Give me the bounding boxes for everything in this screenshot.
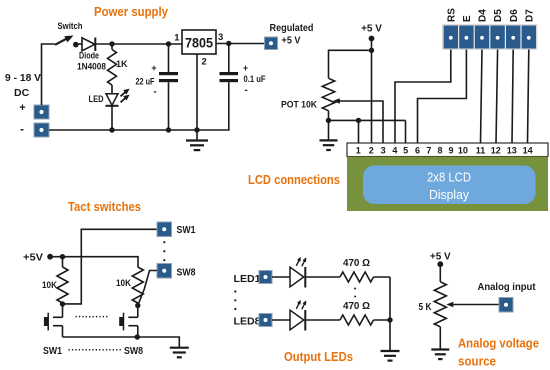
svg-text:Display: Display xyxy=(429,187,469,202)
svg-text:D5: D5 xyxy=(493,9,504,22)
label SW8 (bottom) xyxy=(124,345,143,357)
wire: D5 to pin 12 xyxy=(496,49,498,143)
wire: E to pin 6 xyxy=(418,49,467,143)
wire: LED8 conn to diode xyxy=(272,319,290,321)
svg-text:10K: 10K xyxy=(116,278,131,289)
dotted line between switches xyxy=(76,316,109,318)
label 9 - 18 V DC input xyxy=(5,72,41,136)
svg-text:+5 V: +5 V xyxy=(282,35,301,47)
pot wiper arrow to pin 3 xyxy=(333,98,383,143)
wire: R2 stem xyxy=(62,257,64,267)
svg-text:8: 8 xyxy=(437,146,442,156)
svg-text:2: 2 xyxy=(369,146,374,156)
potentiometer POT 10K xyxy=(322,78,334,110)
junction: 22uF bottom xyxy=(166,127,171,132)
connector J1 - (DC input negative) xyxy=(34,123,49,137)
ellipsis between 470s xyxy=(354,288,356,298)
svg-text:1: 1 xyxy=(174,33,180,44)
LED D4 (row 2) xyxy=(290,300,306,331)
svg-text:2: 2 xyxy=(202,57,207,68)
junction: 22uF tap xyxy=(166,41,171,46)
svg-text:RS: RS xyxy=(446,8,457,22)
wire: diode to node A xyxy=(95,43,112,45)
svg-text:Switch: Switch xyxy=(58,21,83,31)
svg-text:2x8 LCD: 2x8 LCD xyxy=(427,170,471,185)
connector SW8 xyxy=(157,264,172,279)
label 2x8 LCD Display xyxy=(427,170,471,203)
connector analog input xyxy=(499,298,513,313)
label +5 V (LCD) xyxy=(361,24,382,35)
label 10K (right) xyxy=(116,278,131,289)
svg-text:1N4008: 1N4008 xyxy=(77,62,106,72)
svg-text:1: 1 xyxy=(356,146,361,156)
wire: ground rail to pin1/pin5 xyxy=(329,120,406,139)
LCD board (green) xyxy=(347,157,548,212)
label 10K (left) xyxy=(42,280,57,291)
svg-text:7: 7 xyxy=(426,146,431,156)
svg-text:-: - xyxy=(20,122,24,136)
svg-text:+5 V: +5 V xyxy=(430,252,451,263)
svg-text:D7: D7 xyxy=(524,9,535,22)
label SW8 (connector) xyxy=(177,267,196,279)
svg-text:SW8: SW8 xyxy=(177,267,196,279)
wire: R4 to rail xyxy=(374,276,391,278)
svg-text:10: 10 xyxy=(458,146,468,156)
junction: LED bottom xyxy=(109,127,114,132)
resistor R5 470 xyxy=(340,315,374,325)
svg-text:14: 14 xyxy=(523,146,533,156)
wire: pot bottom to ground rail xyxy=(328,111,330,121)
ground: LCD pot xyxy=(320,140,338,150)
wire: LED8 to R5 xyxy=(305,319,340,321)
label SW1 (bottom) xyxy=(43,345,62,357)
label Switch xyxy=(58,21,83,31)
label 470 ohm (bottom) xyxy=(343,300,370,312)
connector LED1 xyxy=(259,271,272,284)
LED D3 (row 1) xyxy=(290,257,306,288)
wire: node A to 7805 pin 1 xyxy=(112,43,182,45)
junction: R2 bottom node xyxy=(60,301,65,306)
wire: switch to diode xyxy=(78,43,82,45)
svg-text:LED: LED xyxy=(89,94,104,104)
wire: D7 to pin 14 xyxy=(528,49,529,143)
wire: pot to ground (analog) xyxy=(439,327,441,349)
svg-text:+5 V: +5 V xyxy=(361,24,382,35)
svg-text:10K: 10K xyxy=(42,280,57,291)
svg-text:Output LEDs: Output LEDs xyxy=(284,349,353,364)
svg-text:Power supply: Power supply xyxy=(94,4,169,19)
label Analog input xyxy=(478,281,536,293)
wire: D6 to pin 13 xyxy=(512,49,513,143)
switch S1 lever xyxy=(55,36,74,45)
label LED1 xyxy=(234,273,261,285)
junction: 0.1uF tap xyxy=(226,41,231,46)
wire: +5V to pot xyxy=(439,264,441,282)
svg-text:22 uF: 22 uF xyxy=(136,77,155,87)
node A junction (diode/1K/7805) xyxy=(109,41,114,46)
label POT 10K xyxy=(281,100,317,110)
svg-text:0.1 uF: 0.1 uF xyxy=(244,74,266,84)
svg-text:D6: D6 xyxy=(509,9,520,22)
wire: LED1 to R4 xyxy=(305,276,340,278)
pot wiper arrow (analog) xyxy=(446,302,499,308)
wire: RS to pin 4 xyxy=(395,49,451,143)
junction: +5V/pot xyxy=(369,48,374,53)
junction: SW8 ground tap xyxy=(135,334,140,339)
wire: pin 1 stub xyxy=(358,120,360,143)
wire: R5 to rail xyxy=(374,319,391,321)
svg-text:6: 6 xyxy=(415,146,420,156)
svg-text:470 Ω: 470 Ω xyxy=(343,300,370,312)
wire: node to SW1 connector xyxy=(63,229,158,304)
pin 2 label xyxy=(202,57,207,68)
connector J1 + (DC input positive) xyxy=(34,105,49,119)
svg-text:9 - 18 V: 9 - 18 V xyxy=(5,72,41,84)
svg-text:13: 13 xyxy=(507,146,517,156)
svg-text:5: 5 xyxy=(403,146,408,156)
resistor R1 1K xyxy=(108,44,117,85)
pin numbers 1-14 xyxy=(356,146,533,156)
svg-text:Analog input: Analog input xyxy=(478,281,536,293)
ellipsis SW1..SW8 xyxy=(163,241,165,261)
switch S1 contact xyxy=(73,42,79,48)
svg-text:LED8: LED8 xyxy=(234,316,261,328)
wire: node to SW8 connector xyxy=(138,271,157,306)
svg-text:12: 12 xyxy=(491,146,501,156)
label SW1 (connector) xyxy=(177,224,196,236)
wire: LED1 conn to diode xyxy=(272,276,290,278)
svg-text:470 Ω: 470 Ω xyxy=(343,257,370,269)
title: Analog voltage source xyxy=(458,336,539,369)
LED D2 indicator xyxy=(106,89,130,106)
label 1K xyxy=(116,59,128,69)
label Diode 1N4008 xyxy=(77,51,106,72)
diode D1 1N4008 xyxy=(82,38,95,52)
resistor R2 10K (SW1 pullup) xyxy=(57,267,68,303)
label LED xyxy=(89,94,104,104)
connector strip RS/E/D4-D7 xyxy=(443,25,537,49)
connector J2 regulated output xyxy=(265,37,278,50)
capacitor C2 0.1uF xyxy=(49,44,238,131)
ground: tact switches xyxy=(170,348,189,358)
svg-text:3: 3 xyxy=(381,146,386,156)
ground: output LEDs xyxy=(381,351,400,361)
svg-text:4: 4 xyxy=(392,146,397,156)
svg-text:LCD connections: LCD connections xyxy=(248,172,340,187)
title: LCD connections xyxy=(248,172,340,187)
svg-text:DC: DC xyxy=(14,87,30,99)
wire: +5V rail xyxy=(50,257,138,267)
svg-text:source: source xyxy=(458,354,496,369)
labels RS E D4 D5 D6 D7 xyxy=(446,8,535,22)
svg-text:7805: 7805 xyxy=(185,36,213,51)
svg-text:Regulated: Regulated xyxy=(270,22,314,34)
connector LED8 xyxy=(259,314,272,327)
svg-text:Diode: Diode xyxy=(79,51,99,61)
IC U1 7805 regulator xyxy=(182,30,216,54)
wire: R1 to LED xyxy=(111,85,113,94)
pin 3 label xyxy=(218,32,223,43)
terminal +5V dot (tact) xyxy=(47,254,53,260)
label LED8 xyxy=(234,316,261,328)
potentiometer R6 5K xyxy=(434,282,446,327)
ellipsis LED1..LED8 xyxy=(234,290,236,310)
svg-text:SW1: SW1 xyxy=(177,224,196,236)
svg-text:5 K: 5 K xyxy=(419,301,432,313)
connector SW1 xyxy=(157,222,172,237)
title: Power supply xyxy=(94,4,169,19)
svg-text:POT 10K: POT 10K xyxy=(281,100,317,110)
svg-text:+: + xyxy=(151,63,156,73)
junction: pot bottom xyxy=(326,118,331,123)
ground: power supply xyxy=(186,141,208,151)
svg-text:3: 3 xyxy=(218,32,223,43)
svg-text:D4: D4 xyxy=(478,9,489,22)
svg-text:SW8: SW8 xyxy=(124,345,143,357)
wire: 7805 pin 2 down xyxy=(196,54,198,141)
dotted line SW1...SW8 xyxy=(69,349,122,351)
svg-text:-: - xyxy=(153,87,156,98)
junction: pin1 tap xyxy=(356,118,361,123)
wire: LED to ground rail xyxy=(111,106,113,130)
LCD pin header strip xyxy=(347,143,548,157)
svg-text:Analog voltage: Analog voltage xyxy=(458,336,539,351)
label +5V (tact) xyxy=(23,252,43,264)
title: Tact switches xyxy=(68,199,141,214)
junction: R3 bottom node xyxy=(135,303,140,308)
LCD display area xyxy=(363,166,536,205)
svg-text:+: + xyxy=(19,102,25,114)
terminal +5V dot xyxy=(369,36,375,42)
svg-text:LED1: LED1 xyxy=(234,273,261,285)
title: Output LEDs xyxy=(284,349,353,364)
label 22 uF +/- xyxy=(136,63,157,98)
wire: pin 5 stub xyxy=(405,120,407,143)
svg-text:SW1: SW1 xyxy=(43,345,62,357)
junction: pin2/ground rail xyxy=(194,127,199,132)
resistor R3 10K (SW8 pullup) xyxy=(132,267,143,303)
wire: 7805 pin 3 to output xyxy=(216,43,265,45)
pin 1 label xyxy=(174,33,180,44)
wire: D4 to pin 11 xyxy=(481,49,483,143)
label 5 K xyxy=(419,301,432,313)
wire: switches ground rail xyxy=(63,337,180,348)
svg-text:E: E xyxy=(462,15,473,22)
svg-text:11: 11 xyxy=(476,146,486,156)
tact switch SW1 symbol xyxy=(44,304,63,337)
wire: LED ground rail xyxy=(389,277,391,351)
svg-text:-: - xyxy=(244,85,247,96)
svg-text:9: 9 xyxy=(448,146,453,156)
svg-text:+5V: +5V xyxy=(23,252,43,264)
svg-text:+: + xyxy=(243,63,248,73)
junction: R2 top tap xyxy=(60,254,65,259)
svg-text:1K: 1K xyxy=(116,59,128,69)
junction: LED rail xyxy=(387,317,392,322)
terminal +5V dot (analog) xyxy=(437,261,443,267)
resistor R4 470 xyxy=(340,272,374,282)
label +5 V (analog) xyxy=(430,252,451,263)
label 470 ohm (top) xyxy=(343,257,370,269)
tact switch SW8 symbol xyxy=(119,306,138,338)
wire: +5V to pin 2 xyxy=(371,39,373,144)
capacitor C1 22uF xyxy=(159,44,178,130)
label Regulated +5 V xyxy=(270,22,314,47)
svg-text:Tact switches: Tact switches xyxy=(68,199,141,214)
label 0.1 uF +/- xyxy=(243,63,266,96)
wire: DC+ up to switch xyxy=(42,44,56,105)
ground: analog source xyxy=(431,350,449,360)
wire: +5V to pot top xyxy=(329,50,372,78)
